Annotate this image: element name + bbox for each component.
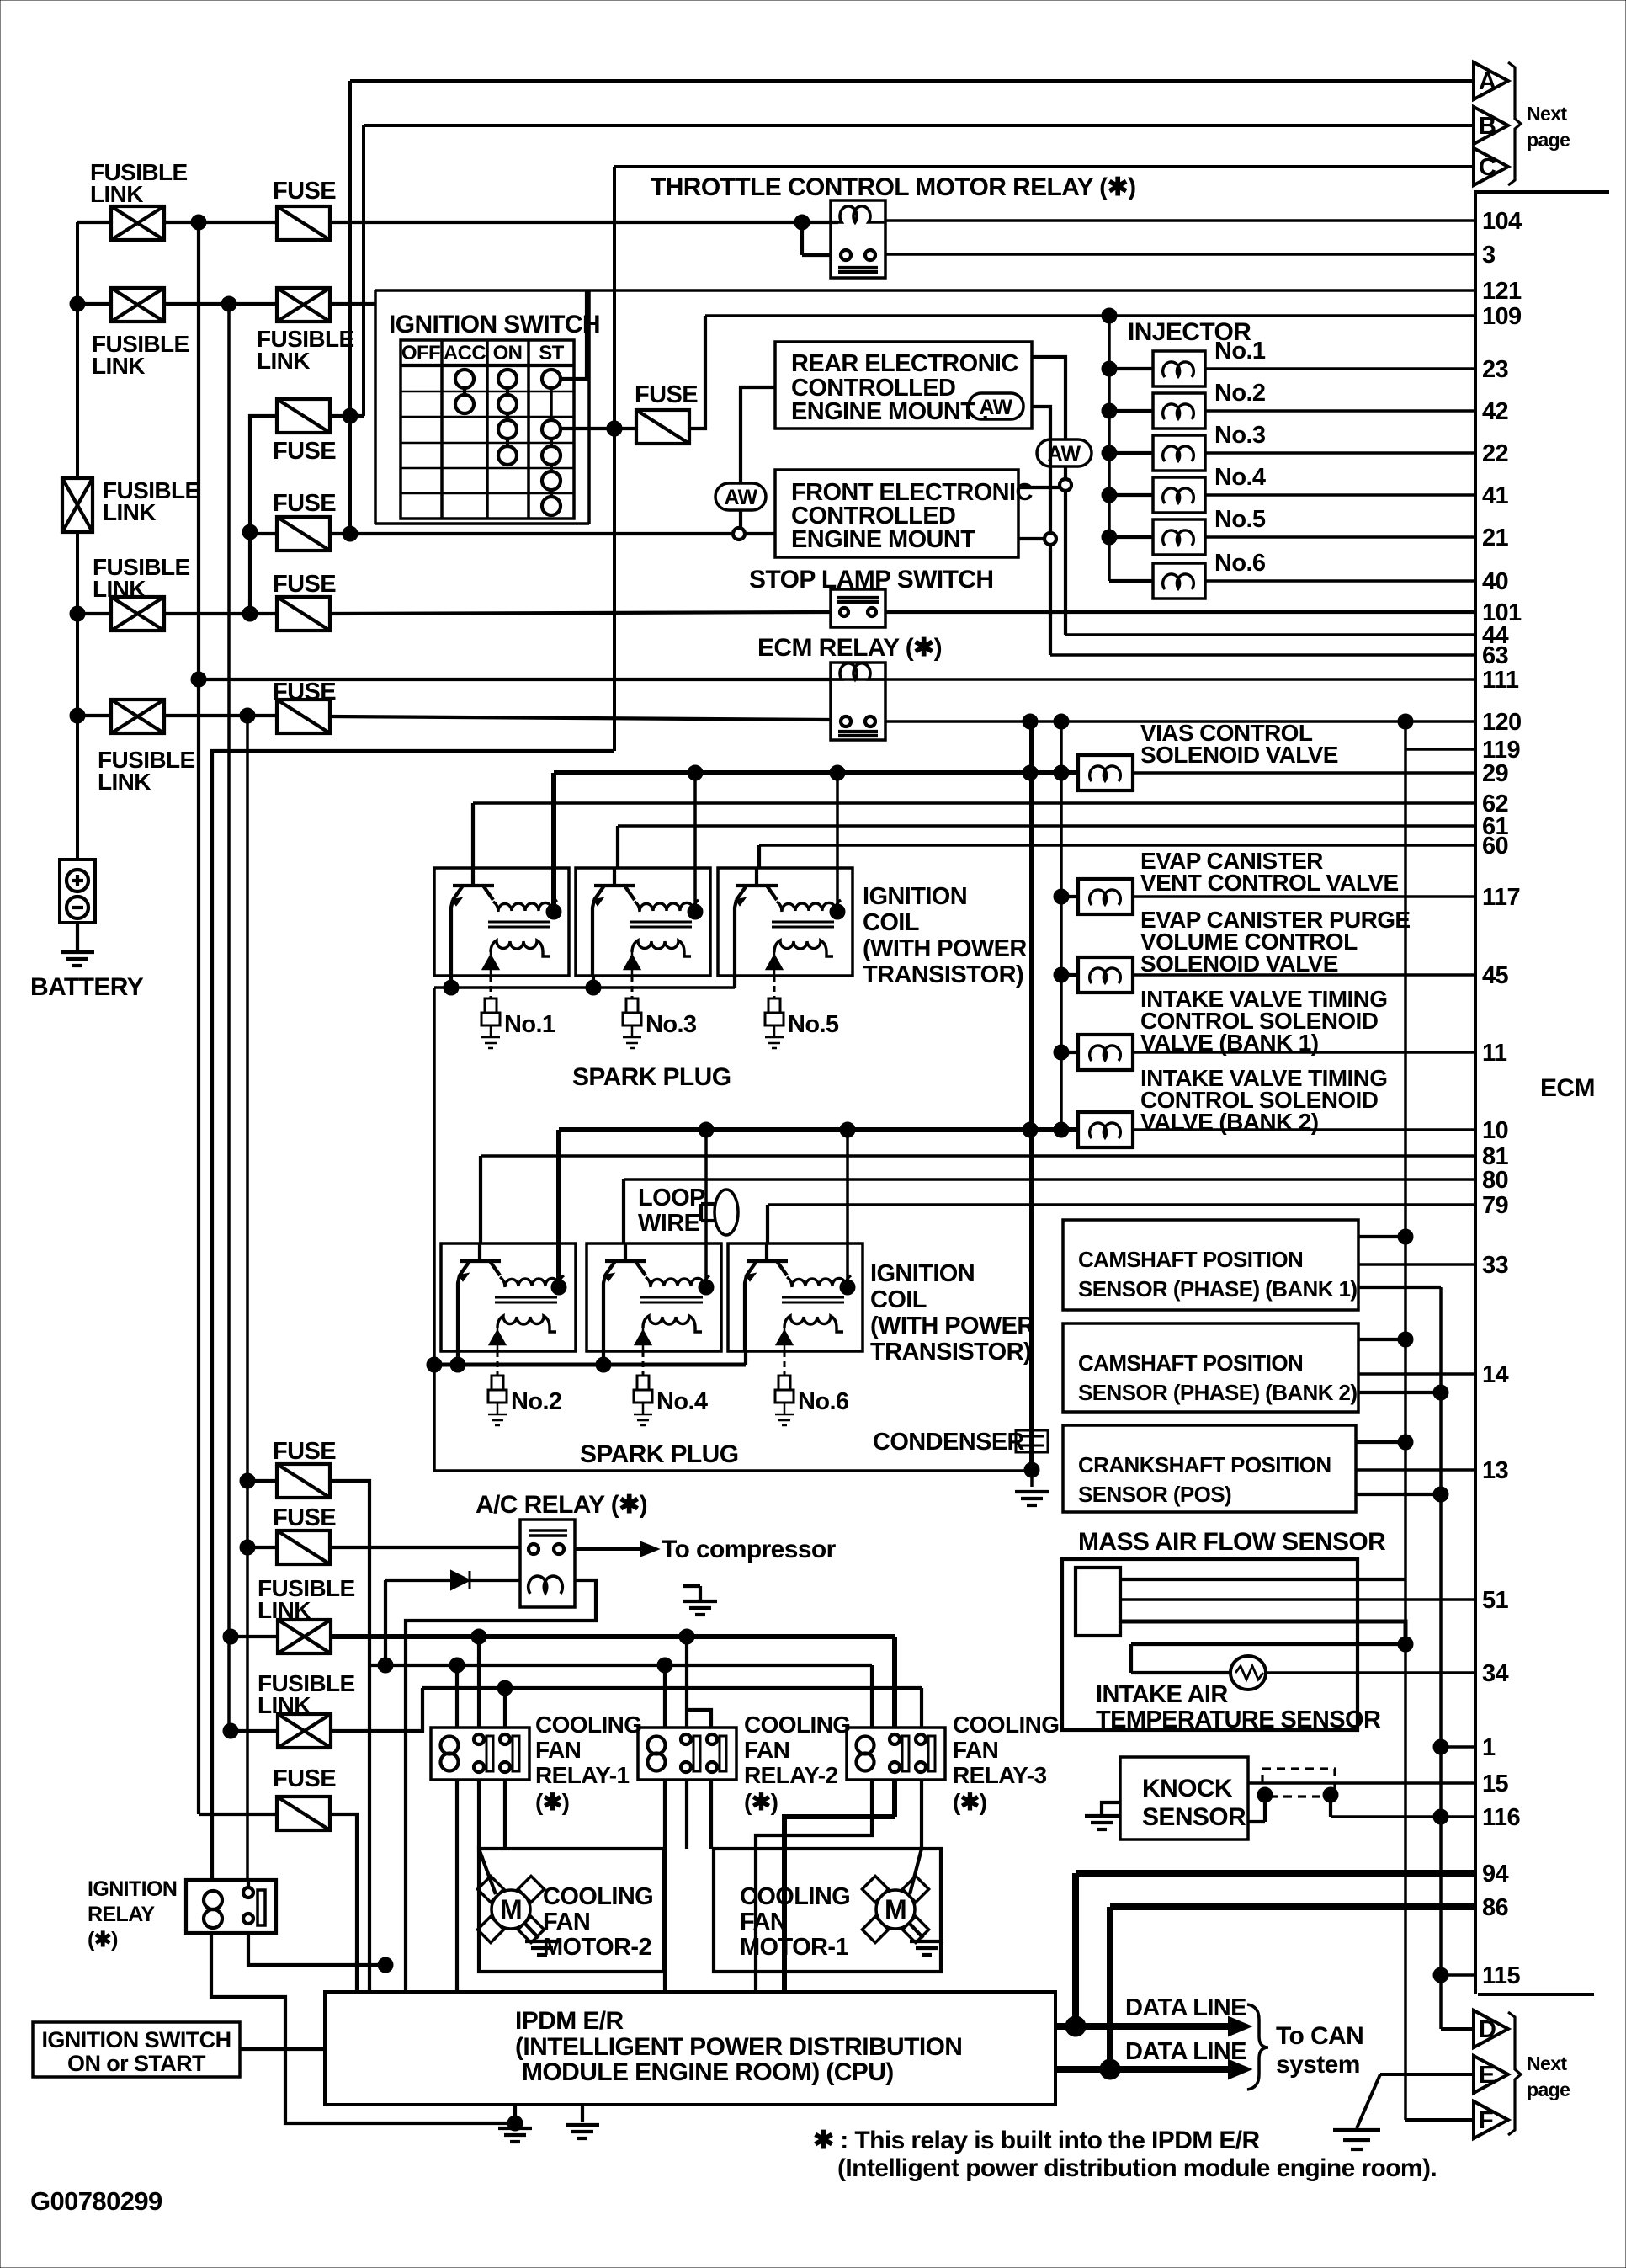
svg-text:10: 10	[1482, 1117, 1508, 1144]
svg-text:FUSE: FUSE	[273, 178, 336, 205]
svg-text:SENSOR: SENSOR	[1142, 1803, 1246, 1831]
svg-text:COOLING: COOLING	[740, 1883, 850, 1910]
svg-text:ST: ST	[539, 342, 564, 365]
svg-text:No.2: No.2	[511, 1388, 561, 1415]
svg-text:RELAY-1: RELAY-1	[535, 1762, 630, 1788]
svg-text:FUSE: FUSE	[273, 1504, 336, 1531]
svg-text:REAR ELECTRONIC: REAR ELECTRONIC	[791, 350, 1018, 377]
svg-text:No.3: No.3	[1214, 422, 1266, 449]
svg-text:page: page	[1527, 2079, 1570, 2100]
svg-text:120: 120	[1482, 709, 1522, 736]
svg-text:117: 117	[1482, 884, 1520, 911]
svg-text:IGNITION SWITCH: IGNITION SWITCH	[42, 2027, 231, 2052]
svg-text:CRANKSHAFT POSITION: CRANKSHAFT POSITION	[1078, 1452, 1331, 1477]
svg-text:LINK: LINK	[98, 769, 151, 795]
svg-text:E: E	[1479, 2062, 1495, 2089]
svg-text:CONDENSER: CONDENSER	[873, 1429, 1025, 1456]
svg-text:(✱): (✱)	[953, 1789, 986, 1815]
svg-text:IGNITION: IGNITION	[88, 1877, 177, 1901]
svg-text:DATA LINE: DATA LINE	[1125, 1994, 1246, 2021]
svg-text:Next: Next	[1527, 103, 1567, 125]
svg-text:FAN: FAN	[744, 1737, 789, 1763]
svg-text:FUSE: FUSE	[635, 381, 698, 408]
svg-text:IPDM E/R: IPDM E/R	[515, 2007, 624, 2035]
svg-text:CAMSHAFT POSITION: CAMSHAFT POSITION	[1078, 1350, 1303, 1376]
svg-text:MOTOR-2: MOTOR-2	[543, 1934, 651, 1961]
svg-text:COIL: COIL	[870, 1286, 927, 1313]
svg-text:121: 121	[1482, 278, 1522, 305]
svg-text:94: 94	[1482, 1861, 1509, 1887]
svg-text:No.4: No.4	[1214, 464, 1266, 491]
svg-text:41: 41	[1482, 482, 1509, 509]
svg-text:23: 23	[1482, 356, 1509, 383]
svg-text:33: 33	[1482, 1252, 1509, 1279]
svg-text:(✱): (✱)	[535, 1789, 569, 1815]
svg-text:3: 3	[1482, 242, 1496, 269]
svg-text:RELAY: RELAY	[88, 1903, 155, 1926]
svg-text:SENSOR (POS): SENSOR (POS)	[1078, 1482, 1231, 1507]
svg-text:40: 40	[1482, 568, 1508, 595]
svg-text:ECM RELAY (✱): ECM RELAY (✱)	[757, 634, 942, 662]
svg-text:SPARK PLUG: SPARK PLUG	[580, 1440, 738, 1468]
svg-text:No.1: No.1	[1214, 338, 1266, 365]
svg-text:LOOP: LOOP	[638, 1185, 705, 1211]
svg-text:No.2: No.2	[1214, 380, 1265, 407]
svg-text:(WITH POWER: (WITH POWER	[863, 935, 1027, 962]
svg-text:63: 63	[1482, 642, 1509, 669]
svg-text:MOTOR-1: MOTOR-1	[740, 1934, 848, 1961]
svg-text:TRANSISTOR): TRANSISTOR)	[870, 1339, 1031, 1366]
svg-text:A/C RELAY (✱): A/C RELAY (✱)	[476, 1491, 647, 1519]
svg-text:22: 22	[1482, 440, 1508, 467]
svg-text:(✱): (✱)	[88, 1928, 118, 1951]
svg-text:No.6: No.6	[798, 1388, 849, 1415]
svg-text:80: 80	[1482, 1167, 1508, 1194]
svg-text:Next: Next	[1527, 2052, 1567, 2074]
svg-text:34: 34	[1482, 1660, 1509, 1687]
svg-text:RELAY-2: RELAY-2	[744, 1762, 838, 1788]
svg-text:FAN: FAN	[740, 1909, 787, 1935]
svg-text:(INTELLIGENT POWER DISTRIBUTIO: (INTELLIGENT POWER DISTRIBUTION	[515, 2033, 962, 2061]
svg-text:60: 60	[1482, 833, 1508, 860]
svg-text:ACC: ACC	[444, 342, 486, 365]
svg-text:FUSE: FUSE	[273, 1438, 336, 1465]
svg-text:14: 14	[1482, 1361, 1509, 1388]
svg-text:DATA LINE: DATA LINE	[1125, 2038, 1246, 2065]
svg-text:ENGINE MOUNT :: ENGINE MOUNT :	[791, 398, 989, 425]
svg-text:M: M	[885, 1894, 906, 1925]
svg-text:C: C	[1479, 154, 1496, 181]
svg-text:B: B	[1479, 113, 1496, 140]
svg-text:IGNITION: IGNITION	[870, 1260, 975, 1287]
svg-text:CAMSHAFT POSITION: CAMSHAFT POSITION	[1078, 1247, 1303, 1272]
svg-text:LINK: LINK	[92, 353, 145, 379]
svg-text:51: 51	[1482, 1587, 1509, 1614]
svg-text:No.6: No.6	[1214, 550, 1266, 577]
svg-text:FUSE: FUSE	[273, 438, 336, 465]
svg-text:SENSOR (PHASE) (BANK 2): SENSOR (PHASE) (BANK 2)	[1078, 1380, 1357, 1405]
svg-text:TRANSISTOR): TRANSISTOR)	[863, 961, 1023, 988]
svg-text:No.5: No.5	[788, 1011, 839, 1038]
svg-text:No.5: No.5	[1214, 506, 1266, 533]
svg-text:VALVE (BANK 1): VALVE (BANK 1)	[1140, 1030, 1318, 1056]
svg-text:RELAY-3: RELAY-3	[953, 1762, 1047, 1788]
svg-text:42: 42	[1482, 398, 1508, 425]
svg-text:116: 116	[1482, 1804, 1520, 1831]
svg-text:COIL: COIL	[863, 909, 919, 936]
svg-text:IGNITION SWITCH: IGNITION SWITCH	[389, 311, 600, 338]
svg-text:TEMPERATURE SENSOR: TEMPERATURE SENSOR	[1096, 1706, 1381, 1733]
svg-text:15: 15	[1482, 1770, 1509, 1797]
svg-text:115: 115	[1482, 1962, 1520, 1989]
svg-text:45: 45	[1482, 962, 1509, 989]
svg-text:THROTTLE CONTROL MOTOR RELAY (: THROTTLE CONTROL MOTOR RELAY (✱)	[651, 173, 1136, 201]
svg-text:(WITH POWER: (WITH POWER	[870, 1312, 1034, 1339]
svg-text:11: 11	[1482, 1040, 1507, 1067]
svg-text:AW: AW	[979, 396, 1012, 419]
svg-text:FUSE: FUSE	[273, 490, 336, 517]
svg-text:No.1: No.1	[504, 1011, 555, 1038]
svg-text:ENGINE MOUNT: ENGINE MOUNT	[791, 526, 975, 553]
svg-text:BATTERY: BATTERY	[30, 973, 144, 1001]
svg-text:LINK: LINK	[90, 181, 143, 207]
svg-text:29: 29	[1482, 760, 1509, 787]
svg-text:VENT CONTROL VALVE: VENT CONTROL VALVE	[1140, 870, 1399, 896]
svg-text:SOLENOID VALVE: SOLENOID VALVE	[1140, 950, 1338, 977]
svg-text:M: M	[500, 1894, 522, 1925]
svg-text:page: page	[1527, 129, 1570, 151]
svg-text:WIRE: WIRE	[638, 1210, 700, 1237]
svg-text:KNOCK: KNOCK	[1142, 1775, 1233, 1802]
svg-text:ON or START: ON or START	[67, 2051, 206, 2076]
svg-text:FUSE: FUSE	[273, 571, 336, 598]
svg-text:FUSE: FUSE	[273, 1765, 336, 1792]
svg-text:To compressor: To compressor	[662, 1536, 837, 1563]
svg-text:MASS AIR FLOW SENSOR: MASS AIR FLOW SENSOR	[1078, 1528, 1386, 1556]
svg-text:FAN: FAN	[953, 1737, 998, 1763]
svg-text:SOLENOID VALVE: SOLENOID VALVE	[1140, 742, 1338, 768]
svg-text:86: 86	[1482, 1894, 1509, 1921]
svg-text:COOLING: COOLING	[535, 1712, 641, 1738]
svg-text:AW: AW	[1047, 442, 1081, 466]
svg-text:system: system	[1276, 2051, 1360, 2079]
svg-text:104: 104	[1482, 208, 1522, 235]
svg-text:A: A	[1479, 68, 1496, 95]
svg-text:IGNITION: IGNITION	[863, 883, 967, 910]
svg-text:FAN: FAN	[543, 1909, 590, 1935]
svg-text:✱ : This relay is built into t: ✱ : This relay is built into the IPDM E/…	[813, 2127, 1261, 2154]
svg-text:ON: ON	[493, 342, 523, 365]
svg-text:FAN: FAN	[535, 1737, 581, 1763]
svg-text:G00780299: G00780299	[30, 2186, 162, 2216]
svg-text:SPARK PLUG: SPARK PLUG	[572, 1063, 731, 1091]
svg-text:MODULE ENGINE ROOM) (CPU): MODULE ENGINE ROOM) (CPU)	[522, 2058, 894, 2086]
svg-text:To CAN: To CAN	[1276, 2022, 1363, 2050]
svg-text:D: D	[1479, 2016, 1496, 2043]
svg-text:No.3: No.3	[646, 1011, 697, 1038]
svg-text:(✱): (✱)	[744, 1789, 778, 1815]
svg-text:109: 109	[1482, 303, 1522, 330]
svg-text:OFF: OFF	[401, 342, 440, 365]
svg-text:1: 1	[1482, 1734, 1496, 1761]
svg-text:F: F	[1479, 2107, 1493, 2134]
svg-text:COOLING: COOLING	[744, 1712, 850, 1738]
svg-text:No.4: No.4	[656, 1388, 708, 1415]
svg-text:LINK: LINK	[257, 348, 310, 374]
svg-text:LINK: LINK	[103, 499, 156, 525]
svg-text:VALVE (BANK 2): VALVE (BANK 2)	[1140, 1109, 1318, 1135]
svg-text:(Intelligent power distributio: (Intelligent power distribution module e…	[837, 2154, 1437, 2182]
svg-text:13: 13	[1482, 1457, 1509, 1484]
svg-text:21: 21	[1482, 524, 1509, 551]
svg-text:79: 79	[1482, 1192, 1509, 1219]
svg-text:COOLING: COOLING	[543, 1883, 653, 1910]
svg-text:INTAKE AIR: INTAKE AIR	[1096, 1681, 1228, 1708]
svg-text:SENSOR (PHASE) (BANK 1): SENSOR (PHASE) (BANK 1)	[1078, 1276, 1357, 1302]
svg-text:AW: AW	[724, 486, 757, 509]
svg-text:111: 111	[1482, 667, 1519, 694]
svg-text:COOLING: COOLING	[953, 1712, 1059, 1738]
svg-text:ECM: ECM	[1540, 1074, 1595, 1102]
